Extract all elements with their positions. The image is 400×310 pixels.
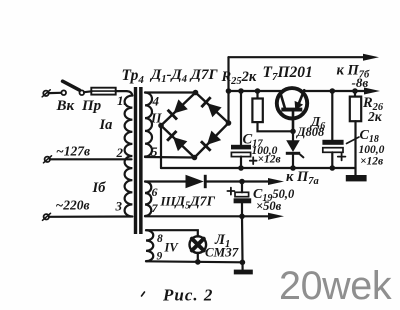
terminal ~127в bbox=[44, 156, 52, 163]
secondary winding III bbox=[145, 182, 151, 217]
node rail-left junction bbox=[226, 88, 232, 94]
transistor Т7 П201 bbox=[277, 88, 307, 131]
node C18 bottom bbox=[330, 165, 336, 171]
svg-text:×50в: ×50в bbox=[256, 199, 282, 213]
diode Д5 bbox=[186, 175, 207, 188]
capacitor C18 bbox=[322, 91, 345, 168]
svg-text:20wek: 20wek bbox=[279, 264, 392, 308]
svg-text:8: 8 bbox=[157, 233, 163, 245]
svg-text:6: 6 bbox=[152, 185, 158, 199]
svg-text:Пр: Пр bbox=[81, 98, 102, 114]
svg-text:4: 4 bbox=[152, 94, 160, 109]
node bridge top bbox=[193, 90, 199, 96]
diode Д3 bbox=[200, 96, 221, 117]
node zener bottom bbox=[290, 165, 296, 171]
terminal input top bbox=[42, 90, 50, 97]
svg-text:×12в: ×12в bbox=[360, 156, 383, 168]
node C17 top bbox=[238, 88, 244, 94]
svg-text:Д5Д7Г: Д5Д7Г bbox=[174, 195, 216, 212]
node lamp bottom bbox=[195, 259, 201, 265]
node bridge bottom bbox=[192, 155, 198, 161]
bridge edge L-B bbox=[161, 126, 195, 158]
wire fuse to transformer tap 1 bbox=[116, 91, 133, 95]
wire switch to fuse bbox=[84, 90, 92, 93]
svg-text:×12в: ×12в bbox=[258, 154, 281, 166]
svg-text:Д1-Д4 Д7Г: Д1-Д4 Д7Г bbox=[149, 67, 218, 85]
wire down to ground 2 bbox=[241, 216, 244, 269]
fuse Пр bbox=[91, 88, 115, 95]
node bridge right bbox=[226, 120, 232, 126]
svg-text:Рис. 2: Рис. 2 bbox=[162, 286, 213, 305]
node C17 bottom bbox=[238, 165, 244, 171]
lamp Л1 СМ37 bbox=[190, 236, 207, 262]
svg-text:Iб: Iб bbox=[92, 180, 107, 196]
diode Д4 bbox=[200, 131, 221, 152]
arrow к П7а bbox=[268, 178, 284, 185]
svg-text:3: 3 bbox=[115, 199, 123, 214]
zener Д6 Д808 bbox=[286, 131, 304, 168]
svg-text:100,0: 100,0 bbox=[359, 144, 385, 156]
capacitor C17 bbox=[231, 91, 257, 168]
svg-text:Д808: Д808 bbox=[296, 125, 325, 139]
svg-text:СМ37: СМ37 bbox=[205, 245, 239, 260]
arrow к П7б bbox=[363, 54, 379, 61]
terminal ~220в bbox=[43, 213, 51, 220]
wire ~220в to tap 3 bbox=[49, 215, 132, 218]
capacitor C19 bbox=[227, 182, 251, 217]
wire Д5 to П7а bbox=[207, 180, 269, 182]
resistor R26 bbox=[350, 91, 361, 175]
label C18 pointer bbox=[347, 137, 360, 144]
svg-text:7: 7 bbox=[152, 201, 159, 215]
svg-text:1.: 1. bbox=[117, 93, 127, 108]
node C18 top bbox=[330, 88, 336, 94]
secondary winding IV bbox=[146, 230, 153, 261]
svg-text:Iа: Iа bbox=[99, 117, 113, 133]
switch Вк bbox=[61, 81, 84, 95]
wire tap 5 to bridge bottom bbox=[145, 156, 195, 159]
wire ~127в to tap 2 bbox=[50, 158, 132, 160]
node R26 top bbox=[352, 88, 358, 94]
diode Д2 bbox=[166, 130, 187, 151]
node tap7 C19 junction bbox=[239, 214, 245, 220]
svg-text:~127в: ~127в bbox=[56, 144, 90, 159]
bridge edge T-R bbox=[196, 93, 229, 124]
svg-text:-8в: -8в bbox=[352, 75, 369, 90]
wire top rail к П7б bbox=[229, 56, 366, 58]
svg-text:R252к: R252к bbox=[221, 69, 257, 87]
ground under C19 bbox=[234, 270, 253, 275]
node base bbox=[290, 129, 296, 135]
wire tap 4 to bridge top bbox=[145, 91, 196, 93]
caption tick bbox=[142, 292, 145, 296]
wire terminal to switch bbox=[49, 92, 61, 94]
node bridge left bbox=[158, 123, 164, 129]
secondary winding II bbox=[145, 93, 152, 157]
primary winding Iа/Iб bbox=[125, 96, 133, 217]
wire tap 6 to diode Д5 bbox=[145, 180, 186, 182]
wire collector rail left segment bbox=[229, 90, 282, 92]
wire bridge right corner up to rails bbox=[227, 57, 229, 123]
arrow -8в rail bbox=[364, 88, 380, 95]
svg-text:к П7а: к П7а bbox=[286, 169, 319, 187]
svg-text:Т7П201: Т7П201 bbox=[263, 64, 313, 83]
svg-text:С18: С18 bbox=[360, 128, 379, 145]
svg-text:III: III bbox=[160, 194, 177, 209]
svg-text:Вк: Вк bbox=[56, 98, 75, 114]
svg-text:2к: 2к bbox=[367, 109, 383, 124]
diode Д1 bbox=[167, 99, 188, 120]
transformer Тр4 core bbox=[134, 87, 143, 234]
bridge edge R-B bbox=[195, 123, 229, 158]
node C19 top bbox=[239, 179, 245, 185]
wire tap 8 to lamp bbox=[146, 230, 198, 236]
svg-text:Тр4: Тр4 bbox=[122, 67, 145, 86]
resistor R25 bbox=[252, 91, 290, 131]
wire emitter rail right segment bbox=[304, 90, 367, 92]
node R25 top bbox=[255, 88, 261, 94]
wire common ground line bbox=[161, 167, 356, 169]
ground under R26 bbox=[346, 175, 367, 181]
svg-text:IV: IV bbox=[164, 241, 180, 255]
arrow tap7 right bbox=[268, 213, 284, 220]
wire tap 7 line bbox=[145, 215, 269, 217]
node lamp line to ground junction bbox=[240, 260, 246, 266]
bridge edge T-L bbox=[161, 93, 196, 126]
wire bridge left corner down to common line bbox=[160, 126, 162, 169]
svg-text:2: 2 bbox=[116, 145, 124, 160]
svg-text:~220в: ~220в bbox=[56, 198, 90, 213]
wire tap 9 to lamp bottom bbox=[146, 261, 242, 262]
